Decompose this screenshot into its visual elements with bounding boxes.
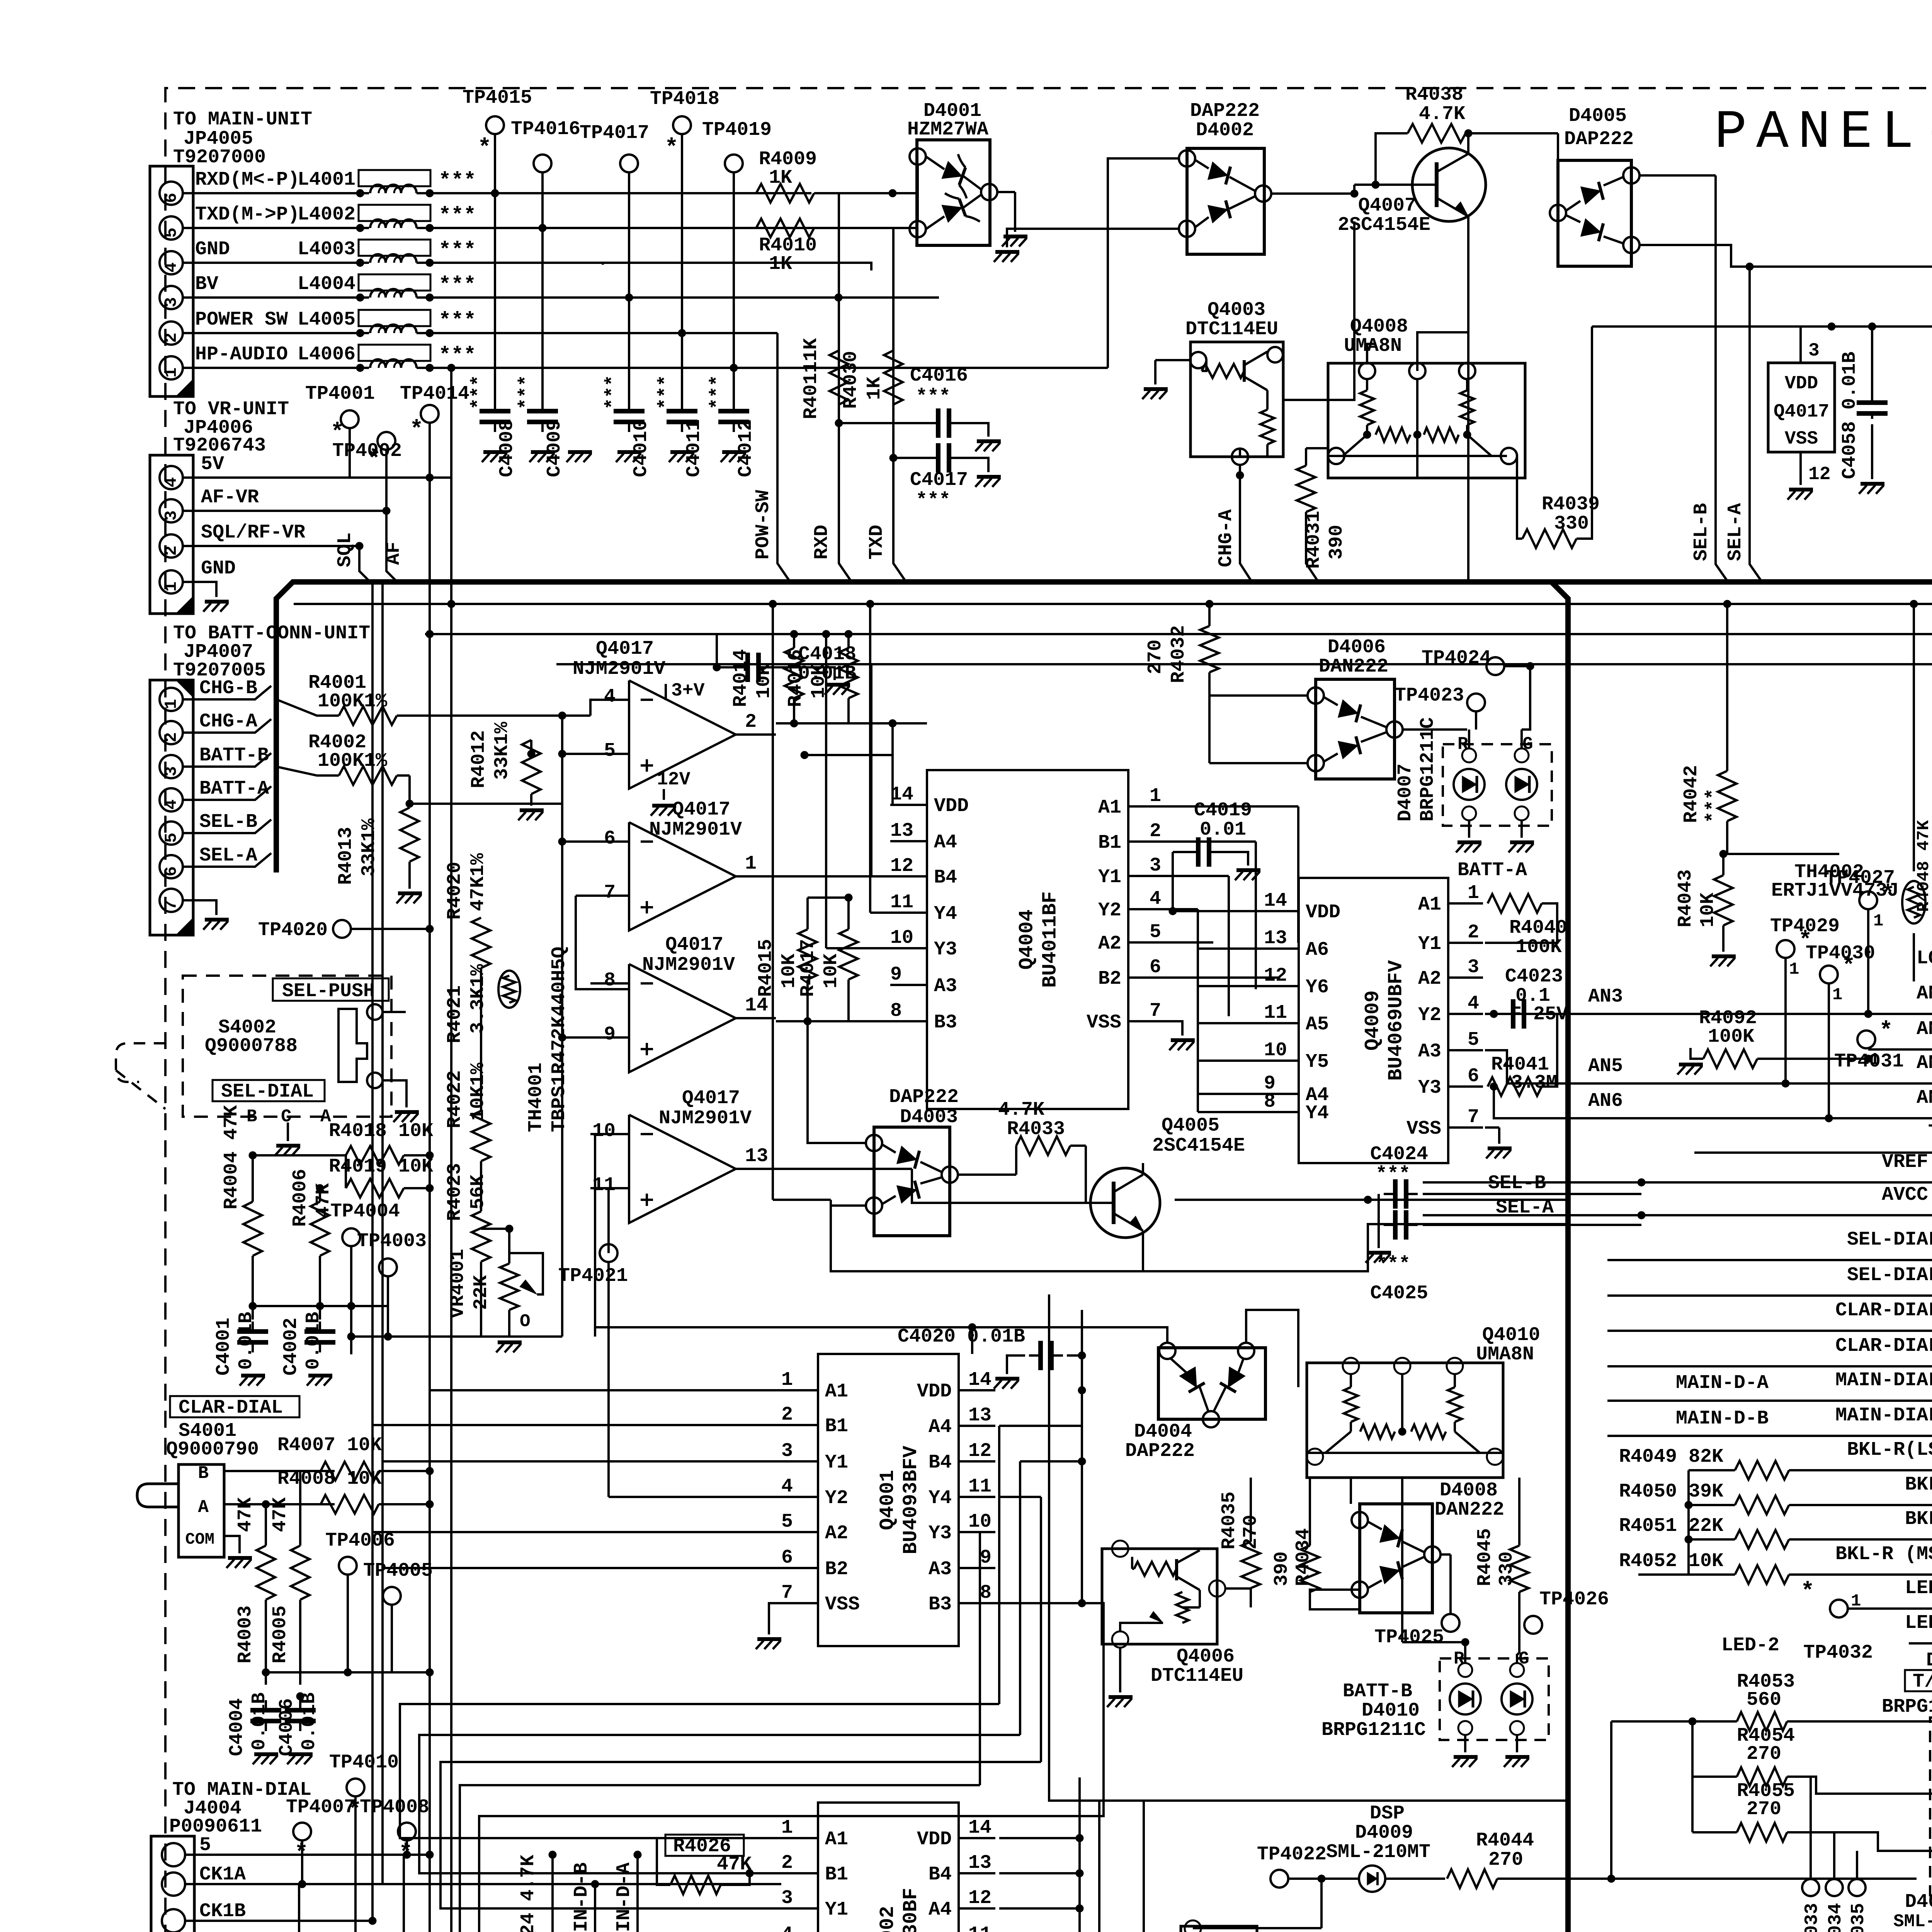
- svg-text:B4: B4: [929, 1452, 952, 1474]
- svg-text:330: 330: [1496, 1551, 1518, 1586]
- svg-text:***: ***: [516, 375, 538, 410]
- svg-text:1K: 1K: [864, 377, 886, 400]
- svg-text:BATT-B: BATT-B: [1343, 1680, 1412, 1702]
- svg-text:3: 3: [781, 1887, 793, 1909]
- svg-text:TP4020: TP4020: [258, 919, 328, 941]
- svg-text:D4006: D4006: [1328, 636, 1386, 658]
- svg-text:DAN222: DAN222: [1435, 1499, 1504, 1521]
- svg-text:8: 8: [890, 1000, 902, 1022]
- svg-text:DTC114EU: DTC114EU: [1151, 1665, 1243, 1687]
- svg-text:14: 14: [968, 1817, 992, 1839]
- svg-text:BV: BV: [195, 273, 218, 295]
- svg-text:1: 1: [781, 1369, 793, 1391]
- svg-text:1: 1: [162, 699, 181, 709]
- svg-text:A2: A2: [1098, 933, 1121, 955]
- svg-text:CHG-B: CHG-B: [199, 677, 257, 699]
- svg-text:POW-SW: POW-SW: [752, 490, 774, 560]
- svg-text:LCDT: LCDT: [1917, 947, 1932, 969]
- svg-text:UMA8N: UMA8N: [1344, 335, 1402, 357]
- svg-text:4: 4: [604, 686, 616, 708]
- svg-text:D4010: D4010: [1362, 1700, 1420, 1722]
- svg-text:SML-210MT: SML-210MT: [1326, 1841, 1430, 1863]
- svg-text:BRPG1211C: BRPG1211C: [1321, 1719, 1426, 1741]
- svg-text:3+V: 3+V: [671, 680, 705, 701]
- svg-text:R4030: R4030: [840, 351, 862, 409]
- svg-text:L4001: L4001: [298, 169, 355, 191]
- svg-text:COM: COM: [185, 1530, 214, 1549]
- svg-text:B2: B2: [825, 1558, 848, 1580]
- svg-text:A3: A3: [1418, 1041, 1441, 1063]
- svg-text:B: B: [198, 1463, 209, 1483]
- svg-text:0.01B: 0.01B: [235, 1312, 257, 1370]
- svg-text:C4006: C4006: [276, 1698, 298, 1756]
- svg-text:13: 13: [890, 820, 913, 842]
- svg-text:BU4030BF: BU4030BF: [900, 1888, 922, 1932]
- svg-text:Q4008: Q4008: [1350, 316, 1408, 338]
- svg-text:5: 5: [1150, 921, 1161, 943]
- svg-text:2: 2: [1468, 922, 1479, 944]
- svg-text:AN 3: AN 3: [1917, 983, 1932, 1005]
- svg-text:NJM2901V: NJM2901V: [659, 1107, 752, 1129]
- svg-text:1: 1: [162, 582, 181, 592]
- svg-text:DAP222: DAP222: [1125, 1440, 1195, 1462]
- svg-text:TXD: TXD: [1928, 1121, 1932, 1143]
- svg-text:D4005: D4005: [1569, 105, 1627, 127]
- svg-text:TP4022: TP4022: [1257, 1844, 1327, 1866]
- svg-text:*: *: [1879, 1018, 1893, 1044]
- svg-text:1: 1: [1832, 985, 1842, 1005]
- svg-text:6: 6: [162, 193, 181, 203]
- svg-text:47K: 47K: [269, 1497, 291, 1532]
- svg-text:5: 5: [199, 1834, 211, 1856]
- svg-text:R4050 39K: R4050 39K: [1619, 1481, 1723, 1503]
- svg-text:DSP: DSP: [1370, 1803, 1405, 1825]
- svg-text:B3: B3: [934, 1012, 957, 1034]
- svg-text:Y1: Y1: [1098, 866, 1121, 888]
- svg-text:A1: A1: [825, 1828, 848, 1850]
- svg-text:R4013: R4013: [335, 827, 357, 885]
- svg-text:D4008: D4008: [1440, 1480, 1498, 1502]
- svg-text:TP4005: TP4005: [363, 1560, 433, 1582]
- svg-text:BRPG1211C: BRPG1211C: [1882, 1696, 1932, 1718]
- svg-text:11: 11: [890, 891, 913, 913]
- svg-text:VSS: VSS: [1785, 429, 1818, 449]
- svg-text:CHG-A: CHG-A: [1215, 509, 1237, 567]
- svg-text:11: 11: [968, 1476, 992, 1498]
- svg-text:5: 5: [781, 1511, 793, 1533]
- svg-text:TP4010: TP4010: [329, 1752, 399, 1774]
- svg-text:R4038: R4038: [1405, 84, 1463, 106]
- svg-text:R4040: R4040: [1509, 917, 1567, 939]
- svg-text:2SC4154E: 2SC4154E: [1152, 1135, 1245, 1157]
- svg-text:B: B: [247, 1107, 257, 1127]
- svg-text:B4: B4: [929, 1864, 952, 1886]
- svg-text:VSS: VSS: [1406, 1118, 1441, 1140]
- svg-text:HP-AUDIO: HP-AUDIO: [195, 344, 288, 366]
- svg-text:NJM2901V: NJM2901V: [649, 819, 742, 841]
- svg-text:R4005: R4005: [269, 1605, 291, 1663]
- svg-text:TP4007: TP4007: [286, 1796, 355, 1818]
- svg-text:11: 11: [968, 1923, 992, 1932]
- svg-text:Y1: Y1: [825, 1452, 848, 1474]
- svg-text:C: C: [281, 1107, 292, 1127]
- svg-text:MAIN-DIAL B: MAIN-DIAL B: [1835, 1405, 1932, 1427]
- svg-text:A4: A4: [929, 1416, 952, 1438]
- svg-text:VSS: VSS: [1087, 1012, 1121, 1034]
- svg-text:4: 4: [162, 799, 181, 810]
- svg-text:3: 3: [162, 297, 181, 307]
- svg-text:12: 12: [968, 1440, 992, 1462]
- svg-text:TBPS1R472K440H5Q: TBPS1R472K440H5Q: [548, 947, 570, 1132]
- svg-text:Q4017: Q4017: [1774, 401, 1829, 422]
- svg-text:TH4001: TH4001: [525, 1063, 547, 1132]
- svg-text:6: 6: [162, 866, 181, 876]
- svg-text:***: ***: [439, 169, 476, 193]
- svg-text:CLAR-DIAL: CLAR-DIAL: [179, 1397, 283, 1419]
- svg-text:***: ***: [439, 344, 476, 367]
- svg-text:2: 2: [745, 711, 757, 733]
- svg-text:1: 1: [1873, 912, 1883, 931]
- svg-text:R4024 4.7K: R4024 4.7K: [517, 1855, 539, 1932]
- svg-text:33K1%: 33K1%: [358, 818, 380, 876]
- svg-text:VREF 5V: VREF 5V: [1882, 1151, 1932, 1173]
- svg-text:R40111K: R40111K: [800, 338, 822, 419]
- svg-text:SML-210MT: SML-210MT: [1893, 1912, 1932, 1932]
- svg-text:C4001: C4001: [213, 1318, 235, 1376]
- svg-text:3: 3: [781, 1440, 793, 1462]
- svg-text:390: 390: [1326, 525, 1348, 560]
- svg-text:1: 1: [745, 853, 757, 875]
- svg-text:Q4017: Q4017: [596, 638, 654, 660]
- svg-text:TP4014: TP4014: [400, 383, 469, 405]
- svg-text:POWER SW: POWER SW: [195, 309, 288, 331]
- svg-text:1: 1: [1789, 960, 1799, 979]
- svg-text:390: 390: [1271, 1551, 1293, 1586]
- svg-text:Y3: Y3: [929, 1522, 952, 1544]
- svg-text:5V: 5V: [201, 453, 224, 475]
- svg-text:12: 12: [890, 855, 913, 877]
- svg-text:***: ***: [439, 309, 476, 333]
- svg-text:AVCC 5V: AVCC 5V: [1882, 1184, 1932, 1206]
- svg-text:*: *: [330, 420, 344, 446]
- svg-text:TP4024: TP4024: [1422, 647, 1491, 669]
- svg-text:R4045: R4045: [1474, 1528, 1496, 1586]
- svg-text:D4004: D4004: [1134, 1421, 1192, 1443]
- svg-text:BKL-R (MSE): BKL-R (MSE): [1835, 1543, 1932, 1565]
- svg-text:***: ***: [916, 490, 951, 512]
- svg-text:2: 2: [781, 1404, 793, 1426]
- svg-text:VDD: VDD: [1306, 901, 1340, 923]
- svg-text:Q4001: Q4001: [876, 1470, 899, 1530]
- svg-text:AN 5: AN 5: [1917, 1052, 1932, 1074]
- svg-text:270: 270: [1747, 1798, 1781, 1820]
- svg-text:5: 5: [162, 833, 181, 843]
- svg-text:14: 14: [890, 784, 913, 806]
- svg-text:Q4006: Q4006: [1177, 1646, 1235, 1668]
- svg-text:560: 560: [1747, 1689, 1781, 1711]
- svg-text:Q4007: Q4007: [1358, 195, 1416, 217]
- svg-text:Y2: Y2: [1098, 900, 1121, 922]
- svg-text:0.01B: 0.01B: [298, 1692, 320, 1750]
- svg-text:BKL-R: BKL-R: [1905, 1508, 1932, 1530]
- svg-text:R4019 10K: R4019 10K: [329, 1156, 433, 1178]
- svg-text:6: 6: [781, 1547, 793, 1569]
- svg-text:SQL/RF-VR: SQL/RF-VR: [201, 522, 305, 544]
- svg-text:C4017: C4017: [910, 469, 968, 491]
- svg-text:CLAR-DIAL A: CLAR-DIAL A: [1835, 1299, 1932, 1321]
- svg-text:Y3: Y3: [934, 939, 957, 961]
- svg-text:TP4025: TP4025: [1374, 1626, 1444, 1648]
- svg-text:B4: B4: [934, 867, 957, 889]
- svg-text:6: 6: [1468, 1065, 1479, 1087]
- svg-text:DTC114EU: DTC114EU: [1185, 318, 1278, 340]
- svg-text:4.7K: 4.7K: [1419, 103, 1465, 125]
- svg-text:2: 2: [1150, 820, 1161, 842]
- svg-text:B2: B2: [1098, 968, 1121, 990]
- svg-text:B1: B1: [825, 1415, 848, 1437]
- svg-text:AF: AF: [383, 542, 405, 565]
- svg-text:R4035: R4035: [1218, 1492, 1240, 1549]
- svg-text:A3: A3: [934, 975, 957, 997]
- svg-text:NJM2901V: NJM2901V: [573, 658, 665, 680]
- svg-text:***: ***: [916, 386, 951, 408]
- svg-text:VDD: VDD: [917, 1828, 952, 1850]
- svg-text:Y4: Y4: [929, 1487, 952, 1509]
- svg-text:14: 14: [745, 995, 768, 1017]
- svg-text:C4016: C4016: [910, 365, 968, 387]
- svg-text:L4003: L4003: [298, 238, 355, 260]
- svg-text:SEL-A: SEL-A: [199, 845, 257, 867]
- svg-text:270: 270: [1488, 1849, 1523, 1871]
- svg-text:Q4017: Q4017: [682, 1087, 740, 1109]
- svg-text:7: 7: [604, 882, 616, 904]
- svg-text:VR4001: VR4001: [447, 1249, 469, 1318]
- svg-text:Q9000790: Q9000790: [166, 1439, 259, 1461]
- svg-text:1: 1: [162, 367, 181, 378]
- svg-text:12: 12: [968, 1887, 992, 1909]
- svg-text:4: 4: [1150, 888, 1161, 910]
- svg-text:12: 12: [1808, 464, 1831, 485]
- svg-text:DAP222: DAP222: [1564, 128, 1634, 150]
- svg-text:8: 8: [1264, 1091, 1276, 1113]
- svg-text:***: ***: [439, 274, 476, 297]
- svg-text:33K1%: 33K1%: [491, 721, 513, 780]
- svg-text:***: ***: [602, 375, 624, 410]
- svg-text:1: 1: [781, 1817, 793, 1839]
- svg-text:D4009: D4009: [1355, 1822, 1413, 1844]
- svg-text:TP4003: TP4003: [357, 1230, 427, 1252]
- svg-text:4: 4: [162, 262, 181, 272]
- svg-text:D4007: D4007: [1395, 764, 1417, 821]
- svg-text:R4051 22K: R4051 22K: [1619, 1515, 1723, 1537]
- svg-text:*: *: [1801, 1579, 1815, 1605]
- svg-text:R4049 82K: R4049 82K: [1619, 1446, 1723, 1468]
- svg-text:A5: A5: [1306, 1014, 1329, 1036]
- svg-text:13: 13: [968, 1852, 992, 1874]
- svg-text:R4008 10K: R4008 10K: [277, 1468, 382, 1490]
- svg-text:D4012: D4012: [1926, 1650, 1932, 1672]
- svg-text:0.01B: 0.01B: [798, 663, 856, 685]
- svg-text:SEL-PUSH: SEL-PUSH: [282, 980, 375, 1002]
- svg-text:C4011: C4011: [683, 419, 705, 477]
- svg-text:14: 14: [968, 1369, 992, 1391]
- svg-text:Y1: Y1: [825, 1899, 848, 1921]
- svg-text:100K1%: 100K1%: [318, 690, 388, 713]
- svg-text:MAIN-D-A: MAIN-D-A: [1676, 1372, 1769, 1394]
- svg-text:CLAR-DIAL B: CLAR-DIAL B: [1835, 1335, 1932, 1357]
- svg-text:R4007 10K: R4007 10K: [277, 1434, 382, 1456]
- svg-text:270: 270: [1747, 1743, 1781, 1765]
- svg-text:LED-2: LED-2: [1905, 1612, 1932, 1634]
- svg-text:C4012: C4012: [735, 419, 757, 477]
- svg-text:2: 2: [162, 546, 181, 556]
- svg-text:9: 9: [604, 1024, 616, 1046]
- svg-text:C4024: C4024: [1370, 1143, 1428, 1165]
- svg-text:C4023: C4023: [1505, 966, 1563, 988]
- svg-text:L4002: L4002: [298, 204, 355, 226]
- svg-text:TP4026: TP4026: [1539, 1588, 1609, 1611]
- svg-text:AN5: AN5: [1588, 1055, 1623, 1077]
- svg-text:TP4001: TP4001: [305, 383, 375, 405]
- svg-text:D4003: D4003: [900, 1106, 958, 1128]
- svg-text:SEL-B: SEL-B: [199, 811, 257, 833]
- svg-text:TP4033: TP4033: [1802, 1903, 1823, 1932]
- svg-text:MAIN-D-B: MAIN-D-B: [571, 1862, 593, 1932]
- svg-text:Y2: Y2: [825, 1487, 848, 1509]
- svg-text:RXD: RXD: [811, 525, 833, 560]
- svg-text:TP4032: TP4032: [1803, 1642, 1873, 1664]
- svg-text:6: 6: [1150, 956, 1161, 978]
- svg-text:BKL-R(LSB): BKL-R(LSB): [1847, 1439, 1932, 1461]
- svg-text:4: 4: [1468, 993, 1479, 1015]
- svg-text:R4003: R4003: [235, 1605, 257, 1663]
- svg-text:2SC4154E: 2SC4154E: [1338, 214, 1430, 236]
- svg-text:100K: 100K: [1708, 1026, 1754, 1048]
- svg-text:12V: 12V: [657, 769, 690, 790]
- svg-text:R4034: R4034: [1293, 1528, 1315, 1586]
- svg-text:TP4008: TP4008: [360, 1796, 429, 1818]
- svg-text:D4011: D4011: [1905, 1891, 1932, 1913]
- svg-text:3: 3: [1808, 340, 1820, 361]
- svg-text:VSS: VSS: [825, 1594, 860, 1616]
- svg-text:3: 3: [162, 766, 181, 776]
- svg-text:Q4017: Q4017: [665, 934, 723, 956]
- svg-text:SEL-B: SEL-B: [1690, 503, 1713, 561]
- svg-text:3: 3: [1468, 956, 1479, 978]
- svg-text:L4006: L4006: [298, 344, 355, 366]
- svg-text:3: 3: [1150, 855, 1161, 877]
- svg-text:3: 3: [162, 510, 181, 520]
- svg-text:A4: A4: [934, 832, 957, 854]
- svg-text:TP4030: TP4030: [1806, 942, 1875, 964]
- svg-text:TP4004: TP4004: [330, 1201, 400, 1223]
- svg-text:TP4016: TP4016: [511, 118, 580, 140]
- svg-text:13: 13: [1264, 927, 1287, 949]
- svg-text:DAN222: DAN222: [1319, 656, 1388, 678]
- svg-text:B1: B1: [825, 1864, 848, 1886]
- svg-text:Y6: Y6: [1306, 976, 1329, 998]
- svg-text:RXD(M<-P): RXD(M<-P): [195, 169, 299, 191]
- svg-text:VDD: VDD: [917, 1381, 952, 1403]
- svg-text:HZM27WA: HZM27WA: [907, 119, 988, 141]
- svg-text:Y2: Y2: [1418, 1004, 1441, 1026]
- svg-text:A1: A1: [1418, 894, 1441, 916]
- svg-text:TP4031: TP4031: [1834, 1051, 1904, 1073]
- svg-text:C4018: C4018: [798, 643, 856, 665]
- svg-text:R4022: R4022: [444, 1070, 466, 1128]
- svg-text:AN3: AN3: [1588, 986, 1623, 1008]
- svg-text:AF-VR: AF-VR: [201, 486, 259, 509]
- svg-text:C4002: C4002: [280, 1318, 302, 1376]
- svg-text:Q4010: Q4010: [1482, 1324, 1540, 1346]
- svg-text:10: 10: [968, 1511, 992, 1533]
- svg-text:A: A: [198, 1497, 209, 1517]
- svg-text:R4043: R4043: [1675, 869, 1697, 927]
- svg-text:TXD: TXD: [866, 525, 888, 560]
- svg-text:1K: 1K: [769, 253, 792, 275]
- svg-text:7: 7: [1468, 1106, 1479, 1128]
- svg-text:100K: 100K: [1515, 936, 1562, 958]
- svg-text:CK1B: CK1B: [199, 1900, 246, 1922]
- svg-text:TP4015: TP4015: [463, 87, 532, 109]
- svg-text:Y4: Y4: [934, 903, 957, 925]
- svg-text:TP4035: TP4035: [1848, 1903, 1869, 1932]
- svg-text:SEL-DIAL: SEL-DIAL: [221, 1081, 314, 1103]
- svg-text:DAP222: DAP222: [1190, 100, 1260, 122]
- svg-text:P0090611: P0090611: [169, 1816, 262, 1838]
- svg-text:2: 2: [781, 1852, 793, 1874]
- svg-text:TP4018: TP4018: [650, 88, 719, 110]
- svg-text:C4025: C4025: [1370, 1282, 1428, 1304]
- svg-text:*: *: [665, 135, 679, 162]
- svg-text:TP4034: TP4034: [1825, 1903, 1846, 1932]
- svg-text:BRPG1211C: BRPG1211C: [1417, 717, 1439, 821]
- svg-text:1: 1: [1150, 785, 1161, 807]
- svg-text:14: 14: [1264, 890, 1287, 912]
- svg-text:9: 9: [890, 964, 902, 986]
- svg-text:Q4004: Q4004: [1016, 909, 1039, 969]
- svg-text:2: 2: [162, 732, 181, 742]
- svg-text:47K1%: 47K1%: [467, 853, 489, 911]
- svg-text:5: 5: [162, 228, 181, 238]
- svg-text:C4004: C4004: [226, 1698, 248, 1756]
- svg-text:MAIN-D-A: MAIN-D-A: [613, 1862, 635, 1932]
- svg-text:C4009: C4009: [544, 419, 566, 477]
- svg-text:2: 2: [162, 333, 181, 343]
- svg-text:12: 12: [1264, 965, 1287, 987]
- svg-text:Q4005: Q4005: [1162, 1115, 1219, 1137]
- svg-text:LED-2: LED-2: [1721, 1634, 1779, 1656]
- svg-text:3.3K1%: 3.3K1%: [467, 964, 489, 1034]
- svg-text:AN 6: AN 6: [1917, 1087, 1932, 1109]
- svg-text:L4005: L4005: [298, 309, 355, 331]
- svg-text:AN6: AN6: [1588, 1090, 1623, 1112]
- svg-text:C4019: C4019: [1194, 799, 1252, 821]
- svg-text:DAP222: DAP222: [889, 1086, 959, 1108]
- svg-text:MAIN-D-B: MAIN-D-B: [1676, 1408, 1769, 1430]
- svg-text:11: 11: [1264, 1002, 1287, 1024]
- svg-text:R4048 47K: R4048 47K: [1914, 820, 1932, 912]
- svg-text:SQL: SQL: [334, 532, 356, 567]
- svg-text:A2: A2: [825, 1522, 848, 1544]
- svg-text:B3: B3: [929, 1594, 952, 1616]
- svg-text:56K: 56K: [467, 1175, 489, 1209]
- svg-text:R4032: R4032: [1168, 625, 1190, 683]
- svg-text:BATT-A: BATT-A: [1458, 859, 1527, 881]
- svg-text:VDD: VDD: [1785, 373, 1818, 394]
- svg-text:O: O: [520, 1311, 531, 1332]
- svg-text:CK1A: CK1A: [199, 1864, 246, 1886]
